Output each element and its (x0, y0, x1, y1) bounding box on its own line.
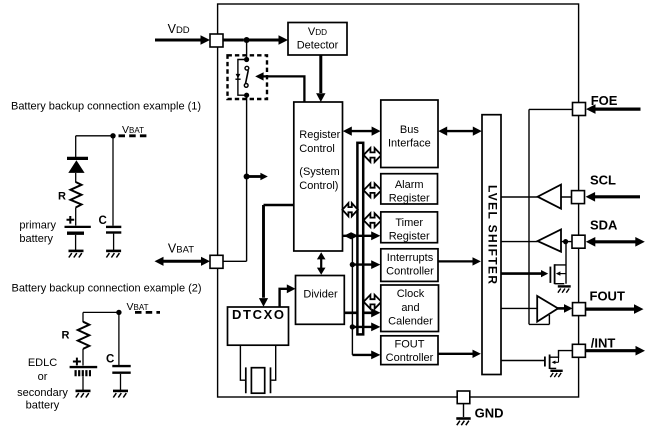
svg-text:FOUT: FOUT (395, 338, 425, 350)
svg-text:Battery backup connection exam: Battery backup connection example (2) (12, 283, 202, 295)
svg-text:EDLC: EDLC (28, 357, 57, 369)
svg-text:Register: Register (389, 192, 430, 204)
svg-text:Clock: Clock (397, 288, 425, 300)
svg-text:Detector: Detector (297, 39, 339, 51)
svg-text:Controller: Controller (386, 352, 434, 364)
svg-text:Controller: Controller (386, 265, 434, 277)
svg-text:Register: Register (299, 129, 340, 141)
svg-text:VDD: VDD (308, 26, 327, 38)
svg-text:VBAT: VBAT (122, 124, 144, 136)
svg-text:SDA: SDA (590, 218, 618, 233)
svg-text:VDD: VDD (168, 22, 190, 36)
svg-text:or: or (38, 371, 48, 383)
svg-text:Interrupts: Interrupts (387, 252, 434, 264)
svg-text:Bus: Bus (400, 124, 419, 136)
svg-text:LVEL SHIFTER: LVEL SHIFTER (485, 185, 499, 284)
svg-text:Timer: Timer (395, 217, 423, 229)
svg-text:SCL: SCL (590, 172, 616, 187)
svg-text:DTCXO: DTCXO (232, 307, 284, 322)
svg-text:(System: (System (299, 166, 339, 178)
svg-text:Control: Control (299, 143, 334, 155)
svg-text:primary: primary (19, 220, 56, 232)
svg-text:R: R (62, 330, 70, 342)
svg-text:secondary: secondary (17, 387, 68, 399)
svg-text:Alarm: Alarm (395, 179, 424, 191)
svg-text:battery: battery (19, 233, 53, 245)
svg-text:Register: Register (389, 231, 430, 243)
svg-text:Calender: Calender (388, 316, 433, 328)
svg-text:Control): Control) (299, 180, 338, 192)
svg-text:C: C (106, 354, 114, 366)
svg-text:VBAT: VBAT (168, 242, 194, 256)
svg-text:C: C (99, 215, 107, 227)
svg-text:GND: GND (475, 405, 504, 420)
svg-text:FOUT: FOUT (590, 288, 625, 303)
svg-text:Battery backup connection exam: Battery backup connection example (1) (11, 101, 201, 113)
svg-text:/INT: /INT (591, 336, 616, 351)
svg-text:and: and (401, 302, 419, 314)
svg-text:Interface: Interface (388, 138, 431, 150)
svg-text:R: R (58, 191, 66, 203)
svg-text:battery: battery (26, 400, 60, 412)
svg-text:Divider: Divider (303, 289, 338, 301)
